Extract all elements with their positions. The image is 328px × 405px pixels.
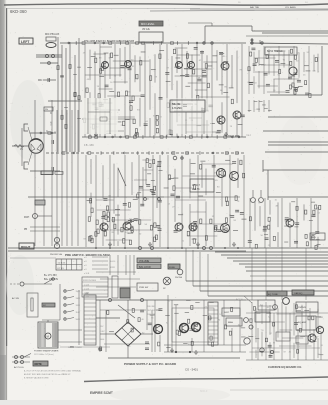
svg-text:120V: 120V — [76, 305, 81, 307]
svg-text:A. VOLT OF P.OUT AT 1kHz WITH: A. VOLT OF P.OUT AT 1kHz WITH BOTH 8 OHM… — [24, 370, 81, 373]
svg-text:o 4-16: o 4-16 — [84, 293, 89, 295]
svg-text:SPKR: SPKR — [110, 267, 116, 269]
svg-text:BAL LOUD: BAL LOUD — [139, 266, 151, 269]
svg-text:2k: 2k — [46, 131, 48, 133]
svg-text:RCH: RCH — [24, 216, 29, 219]
svg-text:3k: 3k — [50, 113, 52, 115]
svg-text:o 4-16: o 4-16 — [84, 289, 89, 291]
svg-text:o 4-16: o 4-16 — [84, 297, 89, 299]
svg-text:PB: PB — [24, 229, 28, 231]
svg-text:POWER TRANSFORMER: POWER TRANSFORMER — [34, 350, 59, 353]
svg-text:EQ TONE: EQ TONE — [268, 294, 278, 296]
svg-text:4.7k 2SC: 4.7k 2SC — [172, 107, 182, 110]
svg-text:CG - 5401: CG - 5401 — [185, 368, 198, 372]
svg-text:BAL TRE: BAL TRE — [250, 6, 260, 9]
svg-text:B2+ 24V 33V: B2+ 24V 33V — [44, 278, 59, 281]
svg-text:9k: 9k — [50, 122, 52, 124]
svg-text:o 8: o 8 — [84, 257, 87, 259]
svg-text:130V: 130V — [76, 298, 81, 300]
svg-text:EMPIRE SCMT: EMPIRE SCMT — [90, 391, 113, 395]
svg-text:LEFT: LEFT — [21, 40, 30, 44]
svg-text:100V: 100V — [76, 319, 81, 321]
svg-text:EQ AMP: EQ AMP — [298, 321, 307, 324]
svg-text:o 16 B: o 16 B — [84, 273, 90, 275]
svg-text:VOLUME: VOLUME — [139, 260, 150, 263]
svg-text:FUSE: FUSE — [169, 267, 175, 269]
svg-text:50k 20k: 50k 20k — [172, 103, 181, 106]
svg-text:o 8: o 8 — [84, 265, 87, 267]
svg-text:2k: 2k — [54, 131, 56, 133]
svg-text:POWER SUPPLY & OUT P.C. BOARD: POWER SUPPLY & OUT P.C. BOARD — [124, 362, 177, 366]
svg-text:AC SW: AC SW — [12, 297, 19, 300]
svg-text:B+ 17V 36V: B+ 17V 36V — [44, 274, 57, 277]
svg-text:VR 12k: VR 12k — [142, 28, 151, 31]
svg-text:NOTE: NOTE — [35, 362, 42, 366]
svg-text:SW2 2. POWER: SW2 2. POWER — [68, 347, 83, 349]
svg-text:6 7 8 9: 6 7 8 9 — [58, 268, 65, 270]
svg-text:C407: C407 — [100, 331, 105, 333]
svg-text:MIC: MIC — [38, 79, 43, 82]
svg-text:4-8-16: 4-8-16 — [110, 261, 115, 263]
svg-text:117V 60Hz O-T(fuse): 117V 60Hz O-T(fuse) — [34, 354, 54, 356]
svg-text:TRLP: TRLP — [246, 135, 252, 137]
svg-text:OUT PUT: OUT PUT — [147, 310, 157, 312]
svg-text:PH: PH — [45, 109, 48, 111]
svg-text:SPKR PHONES: SPKR PHONES — [83, 280, 97, 282]
svg-text:CAR/DVE EQ BOARD CG: CAR/DVE EQ BOARD CG — [268, 365, 301, 369]
svg-text:110V: 110V — [76, 312, 81, 314]
svg-text:AC PLUG: AC PLUG — [14, 366, 24, 369]
svg-text:o 8: o 8 — [84, 269, 87, 271]
svg-text:RIGHT: RIGHT — [21, 245, 31, 249]
svg-text:2k: 2k — [50, 124, 52, 126]
svg-text:PHONO 50k: PHONO 50k — [50, 254, 63, 256]
svg-text:BIAS: BIAS — [228, 321, 234, 324]
svg-text:ADJUST R417 AND CHECK AFTER 30: ADJUST R417 AND CHECK AFTER 30 min WARM … — [24, 373, 71, 376]
svg-text:MIC LEVEL: MIC LEVEL — [141, 22, 155, 26]
svg-text:R417: R417 — [224, 312, 230, 314]
svg-text:2SD 880: 2SD 880 — [147, 306, 156, 308]
svg-text:1 2 3 4 5: 1 2 3 4 5 — [58, 263, 67, 265]
svg-text:PHONE: PHONE — [175, 277, 183, 279]
svg-text:REG: REG — [311, 237, 316, 239]
svg-text:1000: 1000 — [100, 339, 104, 341]
svg-text:AC120: AC120 — [236, 298, 243, 301]
svg-text:6KD-360: 6KD-360 — [10, 9, 27, 14]
svg-text:M: M — [47, 335, 49, 339]
svg-text:F.B - MIC: F.B - MIC — [84, 144, 94, 147]
svg-text:o 8: o 8 — [84, 261, 87, 263]
svg-text:150V: 150V — [76, 291, 81, 293]
svg-text:PWR SW: PWR SW — [139, 287, 149, 289]
svg-text:B. RESIST VALUES IN OHM: B. RESIST VALUES IN OHM — [24, 377, 49, 380]
svg-text:THE AMPLIFIER P.C.BOARD AMPLIF: THE AMPLIFIER P.C.BOARD AMPLIFIER NFB — [84, 40, 134, 43]
svg-text:PRE AMP P.C. BOARD CG-5402: PRE AMP P.C. BOARD CG-5402 — [65, 253, 110, 257]
svg-text:CAR EQ: CAR EQ — [294, 292, 303, 295]
svg-text:MIC PB AUX: MIC PB AUX — [45, 33, 60, 36]
svg-text:o 4-16: o 4-16 — [84, 285, 89, 287]
svg-text:2SB 77A: 2SB 77A — [147, 313, 156, 316]
svg-text:BASS TREBLE: BASS TREBLE — [267, 50, 283, 53]
svg-text:VOL BASS: VOL BASS — [285, 6, 296, 9]
